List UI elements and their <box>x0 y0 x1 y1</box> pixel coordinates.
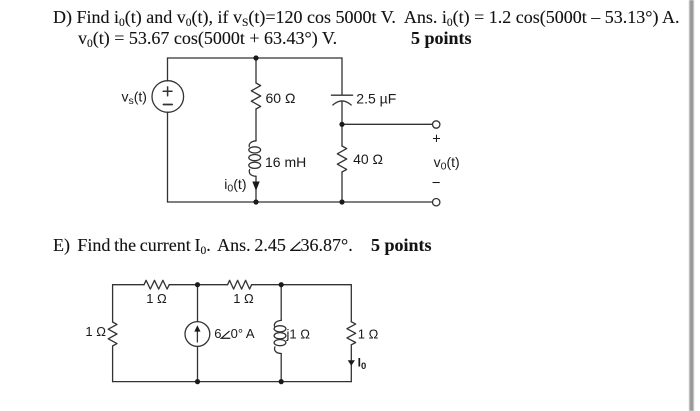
svg-text:v0(t): v0(t) <box>434 154 460 173</box>
svg-text:1 Ω: 1 Ω <box>233 291 254 306</box>
svg-text:6: 6 <box>214 326 221 341</box>
page edge scrollbar line <box>689 0 694 411</box>
arrowhead io(t) <box>252 182 259 191</box>
wire: circuit E top rail segment 1 <box>113 284 144 286</box>
resistor 1 ohm right (vertical) <box>347 322 356 345</box>
wire: current source bottom stub <box>197 346 199 381</box>
wire: below capacitor to node <box>341 102 343 147</box>
svg-text:i0(t): i0(t) <box>224 176 246 195</box>
current source 6 angle 0 A <box>185 322 210 347</box>
svg-text:60 Ω: 60 Ω <box>266 90 296 106</box>
problem D points <box>411 28 472 49</box>
svg-text:40 Ω: 40 Ω <box>353 151 383 167</box>
wire: current source top stub <box>197 285 199 322</box>
resistor 1 ohm top-right (horizontal) <box>228 280 252 289</box>
problem E points <box>371 235 432 256</box>
arrowhead current source <box>194 325 200 331</box>
resistor 1 ohm left (vertical) <box>108 322 117 346</box>
wire: below 40 ohm <box>341 172 343 202</box>
node dot E bottom cs <box>195 379 200 384</box>
inductor j1 ohm <box>274 320 281 326</box>
wire: E right side lower with Io arrow <box>350 345 352 382</box>
wire: E top rail segment 2 <box>169 284 227 286</box>
svg-text:1 Ω: 1 Ω <box>358 327 379 342</box>
wire: E right side upper <box>350 285 352 322</box>
wire: j1 branch bottom stub <box>280 354 282 382</box>
wire: E left side lower <box>112 346 114 382</box>
node dot E bottom j1 <box>279 379 284 384</box>
wire: below 16mH with io(t) arrow <box>255 176 257 202</box>
wire: E bottom rail <box>113 381 352 383</box>
svg-text:0° A: 0° A <box>231 326 255 341</box>
resistor 40 ohm <box>337 146 346 172</box>
problem D text line 2 <box>78 28 337 49</box>
voltage source vs(t) <box>152 81 184 113</box>
wire: circuit D top rail <box>168 57 343 59</box>
wire: node to + terminal <box>342 123 433 125</box>
svg-text:+: + <box>432 131 440 147</box>
problem E text <box>53 235 353 256</box>
node dot D middle-bottom <box>253 199 258 204</box>
wire: capacitor branch top stub <box>341 58 343 95</box>
resistor 1 ohm top-left (horizontal) <box>144 280 169 289</box>
terminal + (open circle) <box>433 121 440 128</box>
svg-text:2.5 µF: 2.5 µF <box>356 91 396 107</box>
wire: E top rail segment 3 <box>252 284 352 286</box>
svg-text:I0: I0 <box>358 355 367 372</box>
svg-text:−: − <box>432 174 441 191</box>
wire: circuit D left side below source <box>167 112 169 202</box>
wire: circuit D bottom rail <box>168 201 433 203</box>
arrowhead Io <box>348 360 355 365</box>
node dot D top <box>253 55 258 60</box>
wire: j1 branch top stub <box>280 285 282 321</box>
wire: between 60ohm and 16mH <box>255 109 257 141</box>
svg-text:1 Ω: 1 Ω <box>146 291 167 306</box>
resistor 60 ohm <box>251 83 260 109</box>
wire: E left side upper <box>112 285 114 322</box>
label 6 angle 0 A: angle symbol <box>221 331 229 338</box>
svg-text:j1 Ω: j1 Ω <box>286 326 311 341</box>
capacitor 2.5uF plates <box>331 94 352 96</box>
wire: circuit D left side above source <box>167 58 169 81</box>
inductor 16 mH <box>249 141 256 147</box>
problem D text line 1 <box>53 7 679 28</box>
wire: middle branch top stub <box>255 58 257 83</box>
node dot E top j1 <box>279 282 284 287</box>
node dot D cap-40ohm <box>339 122 344 127</box>
svg-text:1 Ω: 1 Ω <box>85 324 106 339</box>
svg-text:vs(t): vs(t) <box>122 88 147 107</box>
svg-text:16 mH: 16 mH <box>265 154 306 170</box>
terminal - (open circle) <box>433 199 440 206</box>
node dot E top cs <box>195 282 200 287</box>
node dot D 40ohm bottom <box>339 199 344 204</box>
